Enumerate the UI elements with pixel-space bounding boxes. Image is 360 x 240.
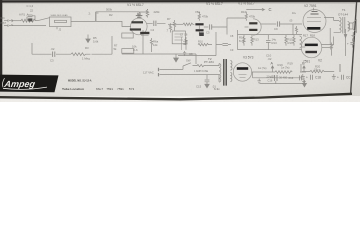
svg-text:1 AMP FUSE: 1 AMP FUSE — [194, 70, 208, 73]
node junction vertical — [95, 12, 97, 22]
capacitor C15 to ground — [205, 75, 210, 88]
wire box to grid node — [71, 20, 96, 22]
wire plates to output transformer — [322, 18, 334, 45]
tone network box — [172, 31, 185, 44]
arrow node B plus — [344, 35, 347, 38]
label C7 C8 — [180, 32, 234, 52]
svg-text:C3: C3 — [50, 58, 54, 62]
wire node C arrow — [246, 8, 264, 11]
svg-text:SHIELDED LEAD: SHIELDED LEAD — [51, 14, 69, 17]
wire fuse to T2 — [207, 64, 219, 66]
resistor R7 vertical — [169, 23, 171, 32]
svg-text:R18: R18 — [310, 34, 315, 38]
svg-text:#5: #5 — [137, 12, 141, 16]
switch SW — [183, 63, 195, 66]
resistor R15 — [293, 35, 295, 46]
svg-text:V1 ½ 6SL7: V1 ½ 6SL7 — [127, 3, 144, 7]
svg-text:OT-144: OT-144 — [338, 13, 348, 17]
svg-text:470k: 470k — [249, 14, 256, 18]
resistor R13 — [251, 35, 253, 46]
svg-text:C16: C16 — [268, 78, 273, 82]
capacitor C3 — [53, 52, 55, 57]
svg-text:V1 ½ 6SL7: V1 ½ 6SL7 — [206, 2, 223, 6]
capacitor C17 — [270, 75, 294, 81]
svg-text:.02: .02 — [51, 47, 55, 51]
svg-text:1w (7w): 1w (7w) — [258, 67, 267, 70]
wire C5 to corner — [212, 18, 245, 35]
svg-text:C7 C8: C7 C8 — [180, 32, 188, 36]
capacitor C19 — [337, 75, 351, 80]
svg-text:C9: C9 — [230, 48, 234, 52]
svg-text:+: + — [347, 41, 349, 45]
svg-text:R3: R3 — [85, 46, 89, 50]
svg-text:V3 5Y3: V3 5Y3 — [243, 56, 254, 60]
B plus rail vertical — [340, 29, 346, 72]
wire to coupling stage — [168, 23, 183, 25]
svg-text:C16: C16 — [288, 76, 293, 80]
tube label V2b — [303, 34, 322, 64]
resistor R9 vertical — [173, 20, 175, 31]
rail top of divider — [238, 34, 303, 36]
resistor R6 vertical — [150, 38, 152, 52]
svg-text:C18: C18 — [315, 75, 321, 79]
svg-text:2:: 2: — [89, 12, 92, 16]
rectifier tube V3 — [233, 63, 251, 81]
wire AC lines — [164, 66, 220, 75]
wire second input — [13, 25, 46, 27]
svg-text:12k: 12k — [153, 43, 158, 47]
node A tick — [271, 62, 274, 72]
ground symbol mid C19 — [332, 74, 336, 79]
T2 labels — [204, 57, 220, 91]
border frame of scanned page — [0, 0, 360, 99]
svg-text:INST: INST — [1, 22, 7, 25]
svg-text:PT-184: PT-184 — [204, 60, 214, 64]
wire V1b plate to C9 — [261, 23, 276, 25]
svg-text:SW: SW — [186, 58, 191, 62]
svg-text:MIC: MIC — [1, 17, 6, 20]
junction blob at R1/C1 — [28, 18, 32, 21]
triode V1b — [245, 19, 262, 35]
title block Ampeg logo — [0, 75, 59, 93]
svg-text:.01: .01 — [212, 85, 216, 89]
svg-text:R19: R19 — [288, 61, 294, 65]
coupling cap stack C5 plates — [195, 23, 203, 34]
capacitor C5 — [210, 24, 212, 29]
wire to power box — [195, 54, 197, 64]
resistor R4 plate load — [136, 9, 149, 18]
svg-text:1w (7w): 1w (7w) — [281, 67, 290, 70]
svg-text:450: 450 — [183, 42, 188, 46]
filter supply wire — [252, 71, 306, 73]
wire to C5 — [204, 26, 209, 28]
svg-text:40+: 40+ — [292, 12, 297, 15]
resistor R18 cathode — [322, 28, 333, 56]
ground symbol filter right — [302, 80, 306, 84]
node B tick — [278, 62, 306, 72]
svg-text:C-6: C-6 — [133, 48, 138, 52]
svg-text:C8: C8 — [230, 34, 234, 38]
capacitor C18 — [306, 75, 321, 80]
wire control cluster — [122, 30, 196, 54]
svg-text:R13: R13 — [272, 41, 278, 45]
capacitor C4 — [154, 21, 156, 26]
svg-text:V1 ½ 6SL7: V1 ½ 6SL7 — [238, 2, 255, 6]
svg-text:R2: R2 — [109, 13, 113, 17]
svg-text:T1: T1 — [342, 8, 346, 12]
screen resistor R17 — [295, 26, 297, 34]
ground symbol left C18 — [301, 74, 305, 79]
svg-text:20-450: 20-450 — [267, 74, 276, 78]
svg-text:C15: C15 — [196, 85, 202, 89]
fuse F1 — [195, 64, 207, 66]
svg-text:C 1,2: C 1,2 — [27, 4, 34, 8]
resistor R12 — [243, 35, 245, 46]
output transformer T1 — [334, 17, 350, 33]
svg-text:10k w: 10k w — [314, 68, 321, 71]
svg-text:MODEL NO. SJ-12-A: MODEL NO. SJ-12-A — [68, 78, 92, 82]
resistor R1 — [20, 19, 38, 22]
ground arrow bottom right — [303, 80, 307, 87]
choke resistor R19 — [275, 71, 292, 74]
svg-text:+: + — [337, 75, 339, 79]
model number text — [62, 78, 135, 91]
beam tube V2a — [303, 8, 326, 33]
svg-text:C4: C4 — [151, 28, 155, 32]
svg-text:C5: C5 — [206, 31, 210, 35]
wire plate rail to C4 — [147, 22, 166, 24]
capacitor C10 — [266, 35, 271, 50]
svg-text:V8a: V8a — [195, 10, 200, 14]
small value labels — [1, 4, 321, 89]
svg-text:6SL7 7591 7591 5Y3: 6SL7 7591 7591 5Y3 — [96, 87, 135, 91]
speaker — [350, 20, 357, 38]
capacitor C17b — [299, 75, 301, 80]
capacitor C1,2 — [27, 14, 35, 21]
resistor R3 — [71, 53, 90, 56]
inductor coil — [300, 36, 302, 48]
terminal strip box — [122, 49, 134, 54]
svg-text:117 VAC: 117 VAC — [143, 70, 154, 74]
resistor R14 — [285, 35, 287, 46]
svg-text:.02: .02 — [268, 57, 272, 61]
svg-text:A R1 .A: A R1 .A — [19, 13, 29, 17]
shielded lead box — [50, 17, 72, 29]
svg-text:V2: V2 — [318, 59, 322, 63]
feedback wire long bottom — [32, 36, 112, 54]
filter cap C7 C8 cluster — [178, 32, 231, 56]
input jack J1 MIC — [4, 19, 13, 22]
resistor R2 vertical tick — [97, 12, 99, 14]
svg-text:470k: 470k — [202, 14, 209, 18]
power transformer T2 — [219, 59, 232, 86]
svg-text:220k: 220k — [154, 10, 161, 14]
svg-text:CC: CC — [346, 75, 351, 79]
resistor R10 470k vertical — [245, 12, 247, 21]
AC plug 117VAC — [159, 68, 164, 77]
volume pot box — [122, 33, 133, 38]
capacitor C9 — [277, 21, 279, 26]
svg-text:C9: C9 — [274, 27, 278, 31]
wire input bus — [13, 20, 21, 22]
wire to shielded box — [36, 18, 50, 21]
rail bottom of divider — [238, 49, 303, 51]
svg-text:Ampeg: Ampeg — [3, 79, 37, 89]
svg-text:R19: R19 — [278, 63, 284, 67]
svg-text:+: + — [306, 75, 308, 79]
ground arrow near R5 — [86, 35, 90, 43]
svg-text:C8: C8 — [189, 52, 193, 56]
svg-text:22: 22 — [30, 9, 34, 13]
triode V1a — [96, 18, 147, 35]
svg-text:30-450: 30-450 — [279, 76, 288, 80]
wire C9 to V2 grid — [280, 24, 302, 35]
right filter rail verticals — [301, 64, 340, 72]
svg-text:Tube Location: Tube Location — [62, 87, 84, 91]
beam tube V2b — [301, 37, 322, 58]
tube label text row — [127, 2, 317, 8]
capacitor C8 tap — [183, 51, 186, 56]
input jack J2 INST — [4, 24, 13, 27]
svg-text:8.2k: 8.2k — [239, 39, 245, 43]
svg-text:R16: R16 — [288, 41, 294, 45]
ground symbol filter left — [257, 79, 261, 84]
svg-text:5.6k: 5.6k — [93, 39, 99, 43]
filter lower wire — [253, 72, 305, 84]
svg-text:R7: R7 — [167, 17, 171, 21]
svg-text:R10: R10 — [198, 40, 203, 44]
svg-text:V2 7591: V2 7591 — [304, 4, 317, 8]
resistor R8 horizontal — [183, 23, 194, 26]
svg-text:1 Meg: 1 Meg — [82, 57, 90, 61]
capacitor C6 dark — [140, 32, 149, 35]
svg-text:500k: 500k — [106, 7, 113, 11]
wire grid rail — [96, 11, 139, 13]
wire divider left vertical — [237, 30, 239, 50]
svg-text:R17: R17 — [303, 34, 308, 38]
svg-text:R13: R13 — [254, 37, 260, 41]
svg-text:C: C — [269, 7, 272, 12]
capacitor C14 right — [347, 39, 355, 48]
T1 labels — [338, 8, 348, 17]
resistor R10a 470k vertical — [198, 12, 200, 21]
resistor R20 — [302, 70, 334, 72]
svg-text:R10: R10 — [241, 10, 247, 14]
ground arrow mid — [174, 54, 179, 62]
